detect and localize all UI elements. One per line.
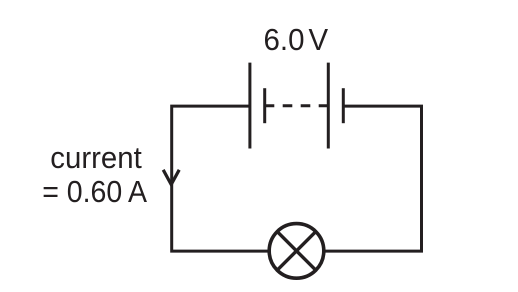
- battery B1 cell 2 short plate: [342, 88, 345, 123]
- current direction arrowhead: [163, 170, 179, 185]
- lamp L1 circle: [269, 224, 324, 279]
- lamp L1 cross stroke 1: [277, 232, 316, 271]
- svg-text:V: V: [309, 22, 329, 57]
- svg-text:= 0.60 A: = 0.60 A: [42, 174, 147, 209]
- battery B1 cell 1 long plate: [248, 63, 251, 149]
- svg-text:6.0: 6.0: [264, 22, 305, 57]
- battery B1 cell 2 long plate: [327, 63, 330, 149]
- lamp L1 cross stroke 2: [277, 232, 316, 271]
- wire: dashed link between cells: [265, 104, 329, 107]
- svg-text:current: current: [50, 140, 142, 175]
- wire: top-left, left side, bottom-left: [172, 106, 268, 251]
- battery B1 cell 1 short plate: [263, 88, 266, 123]
- wire: top-right, right side, bottom-right: [325, 106, 422, 251]
